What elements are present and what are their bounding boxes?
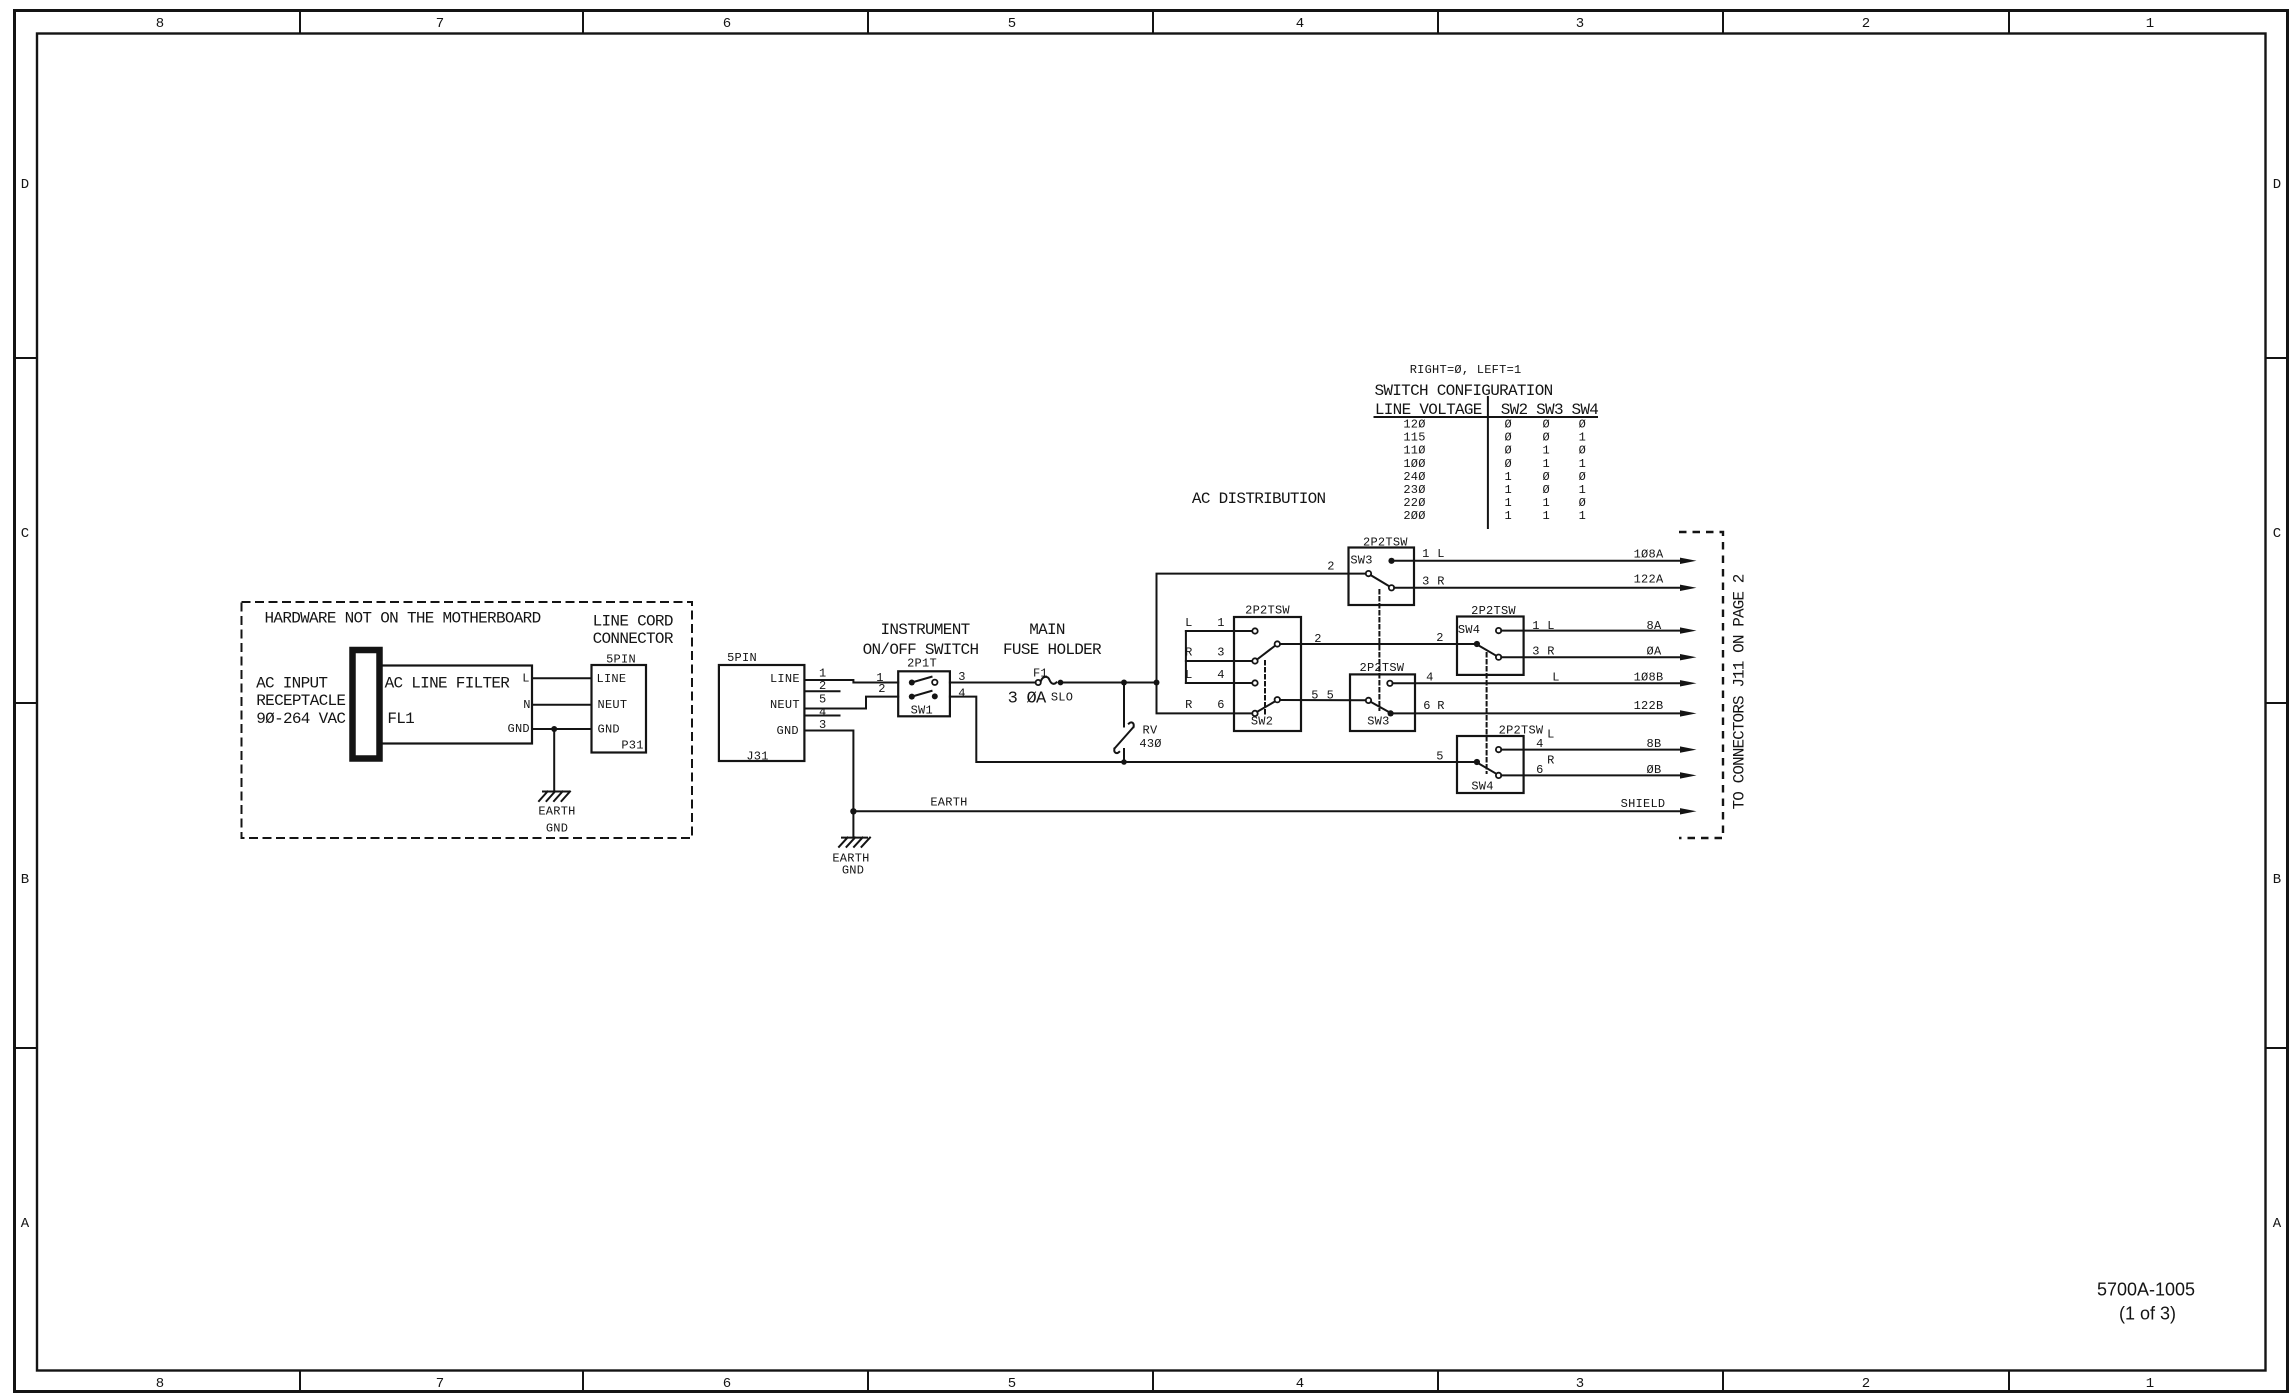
SW1 pole 1 throw contact bbox=[932, 680, 937, 685]
junction node bottom AC feed bbox=[1121, 759, 1127, 765]
svg-text:Ø: Ø bbox=[1542, 470, 1549, 484]
SW1 pole 2 arm bbox=[912, 691, 932, 697]
svg-text:23Ø: 23Ø bbox=[1403, 483, 1425, 497]
SW1 pole 1 arm bbox=[912, 677, 932, 683]
svg-text:9Ø-264 VAC: 9Ø-264 VAC bbox=[256, 710, 345, 728]
svg-text:INSTRUMENT: INSTRUMENT bbox=[880, 621, 969, 639]
svg-text:L: L bbox=[1437, 547, 1444, 561]
svg-text:1: 1 bbox=[1504, 483, 1511, 497]
svg-text:1: 1 bbox=[1579, 509, 1586, 523]
svg-text:Ø: Ø bbox=[1542, 483, 1549, 497]
table row 120 bbox=[1403, 418, 1586, 432]
svg-text:Ø: Ø bbox=[1504, 431, 1511, 445]
svg-text:1: 1 bbox=[1422, 547, 1429, 561]
svg-text:LINE CORD: LINE CORD bbox=[593, 612, 673, 630]
SW1 pole 2 contact bbox=[909, 694, 915, 700]
svg-text:5: 5 bbox=[1311, 689, 1318, 703]
svg-text:L: L bbox=[1547, 728, 1554, 742]
svg-text:D: D bbox=[21, 177, 29, 193]
SW1 pole 1 contact bbox=[909, 680, 915, 686]
SW4 top pin 3 contact bbox=[1496, 655, 1501, 660]
arrow 122B bbox=[1680, 710, 1697, 716]
svg-text:SW3: SW3 bbox=[1350, 553, 1372, 567]
SW3 middle pin 4 contact bbox=[1387, 681, 1392, 686]
SW4 top pole contact bbox=[1474, 641, 1480, 647]
svg-text:8A: 8A bbox=[1647, 619, 1662, 633]
svg-text:SWITCH CONFIGURATION: SWITCH CONFIGURATION bbox=[1374, 382, 1552, 400]
SW3 top pin 1 contact bbox=[1388, 558, 1394, 564]
svg-text:12Ø: 12Ø bbox=[1403, 418, 1425, 432]
SW3 top arm bbox=[1371, 575, 1390, 586]
border zone tick marks left bbox=[15, 358, 38, 1048]
EARTH wire to SHIELD bbox=[853, 810, 1680, 812]
SW4 top arm bbox=[1479, 646, 1497, 656]
wire SW1 pin4 down to bottom AC feed bbox=[950, 697, 1474, 762]
svg-text:1ØØ: 1ØØ bbox=[1403, 457, 1425, 471]
svg-text:D: D bbox=[2273, 177, 2281, 193]
svg-text:SHIELD: SHIELD bbox=[1621, 797, 1666, 811]
svg-text:F1: F1 bbox=[1033, 667, 1048, 681]
SW1 pole 2 throw contact bbox=[932, 693, 938, 699]
svg-text:R: R bbox=[1185, 645, 1192, 659]
svg-text:AC DISTRIBUTION: AC DISTRIBUTION bbox=[1192, 490, 1326, 508]
wire junction down to earth ground bbox=[553, 729, 555, 792]
svg-text:P31: P31 bbox=[621, 739, 643, 753]
svg-text:RIGHT=Ø, LEFT=1: RIGHT=Ø, LEFT=1 bbox=[1410, 363, 1522, 377]
svg-text:8B: 8B bbox=[1647, 737, 1662, 751]
AC input receptacle (thick rectangle) bbox=[353, 650, 380, 759]
SW3 middle pin 6 contact bbox=[1388, 710, 1394, 716]
J31 pin 4 stub bbox=[805, 715, 840, 717]
SW3 middle arm bbox=[1371, 702, 1389, 712]
svg-text:1: 1 bbox=[1579, 431, 1586, 445]
wire filter GND to P31 GND bbox=[532, 728, 592, 730]
svg-text:5: 5 bbox=[1436, 749, 1443, 763]
wire filter L to P31 LINE bbox=[532, 677, 592, 679]
wire net 8B bbox=[1501, 749, 1681, 751]
svg-text:Ø: Ø bbox=[1579, 444, 1586, 458]
SW3 middle pole contact bbox=[1366, 698, 1371, 703]
svg-text:3 ØA: 3 ØA bbox=[1008, 690, 1047, 709]
svg-text:A: A bbox=[21, 1216, 30, 1232]
wire SW2 pole1 (net 2) to SW4 top pole bbox=[1280, 643, 1477, 645]
arrow 108B bbox=[1680, 680, 1697, 686]
junction node fuse/RV bbox=[1121, 680, 1127, 686]
svg-text:GND: GND bbox=[546, 821, 568, 835]
svg-text:ØB: ØB bbox=[1647, 763, 1662, 777]
table header underline bbox=[1375, 416, 1598, 418]
svg-text:1: 1 bbox=[1579, 483, 1586, 497]
svg-text:GND: GND bbox=[842, 863, 864, 877]
svg-text:MAIN: MAIN bbox=[1029, 621, 1065, 639]
svg-text:8: 8 bbox=[156, 16, 164, 32]
svg-text:24Ø: 24Ø bbox=[1403, 470, 1425, 484]
SW2 pole 1 arm and output contact bbox=[1257, 646, 1275, 660]
svg-text:7: 7 bbox=[436, 1376, 444, 1392]
svg-text:(1 of 3): (1 of 3) bbox=[2119, 1304, 2176, 1324]
svg-text:2: 2 bbox=[878, 682, 885, 696]
svg-text:R: R bbox=[1547, 753, 1554, 767]
border zone numbers bottom bbox=[156, 1376, 2154, 1392]
svg-text:R: R bbox=[1437, 574, 1444, 588]
SW4 top pin 1 contact bbox=[1496, 628, 1501, 633]
svg-text:7: 7 bbox=[436, 16, 444, 32]
svg-text:1: 1 bbox=[1542, 444, 1549, 458]
dashed enclosure HARDWARE NOT ON THE MOTHERBOARD bbox=[242, 602, 693, 838]
line cord connector P31 box bbox=[592, 665, 647, 753]
table row 230 bbox=[1403, 483, 1586, 497]
svg-text:GND: GND bbox=[777, 724, 799, 738]
svg-text:AC LINE FILTER: AC LINE FILTER bbox=[385, 674, 511, 692]
SW4 bottom pin 6 contact bbox=[1496, 773, 1501, 778]
wire SW1 pin3 to fuse bbox=[950, 682, 1036, 684]
wire fuse to junctions bbox=[1063, 682, 1156, 684]
arrow 8A bbox=[1680, 627, 1697, 633]
svg-text:RECEPTACLE: RECEPTACLE bbox=[256, 692, 345, 710]
earth ground symbol (filter side) bbox=[539, 792, 570, 802]
junction node main AC bbox=[1154, 680, 1160, 686]
svg-text:2: 2 bbox=[1314, 632, 1321, 646]
svg-text:122B: 122B bbox=[1634, 699, 1664, 713]
arrow 8B bbox=[1680, 746, 1697, 752]
arrow SHIELD bbox=[1680, 808, 1697, 814]
wire net 108B bbox=[1393, 682, 1681, 684]
junction earth node bbox=[850, 808, 856, 814]
table row 200 bbox=[1403, 509, 1586, 523]
svg-text:ØA: ØA bbox=[1647, 645, 1662, 659]
svg-text:5: 5 bbox=[1327, 689, 1334, 703]
svg-text:6: 6 bbox=[723, 16, 731, 32]
svg-text:2: 2 bbox=[1862, 16, 1870, 32]
svg-text:A: A bbox=[2273, 1216, 2282, 1232]
svg-text:11Ø: 11Ø bbox=[1403, 444, 1425, 458]
svg-text:C: C bbox=[21, 526, 29, 542]
svg-text:Ø: Ø bbox=[1579, 418, 1586, 432]
svg-text:RV: RV bbox=[1143, 723, 1158, 737]
svg-text:SW1: SW1 bbox=[911, 703, 933, 717]
svg-text:GND: GND bbox=[598, 723, 620, 737]
arrow 108A bbox=[1680, 558, 1697, 564]
wire net 8A bbox=[1501, 630, 1681, 632]
svg-text:1: 1 bbox=[1542, 509, 1549, 523]
wire net 122B bbox=[1391, 712, 1681, 714]
svg-text:SW3: SW3 bbox=[1367, 715, 1389, 729]
wire net 0A bbox=[1501, 656, 1681, 658]
svg-text:122A: 122A bbox=[1634, 573, 1664, 587]
svg-text:2ØØ: 2ØØ bbox=[1403, 509, 1425, 523]
SW2 pole 2 arm and output contact bbox=[1257, 701, 1275, 712]
SW2 pin contacts bbox=[1252, 628, 1257, 633]
svg-text:TO CONNECTORS J11 ON PAGE 2: TO CONNECTORS J11 ON PAGE 2 bbox=[1731, 574, 1749, 809]
svg-text:1: 1 bbox=[1217, 616, 1224, 630]
svg-text:Ø: Ø bbox=[1579, 470, 1586, 484]
svg-text:SW4: SW4 bbox=[1458, 623, 1480, 637]
SW4 bottom pin 4 contact bbox=[1496, 747, 1501, 752]
svg-text:5: 5 bbox=[819, 692, 826, 706]
svg-text:HARDWARE NOT ON THE MOTHERBOAR: HARDWARE NOT ON THE MOTHERBOARD bbox=[265, 610, 541, 628]
svg-text:L: L bbox=[1552, 671, 1559, 685]
svg-text:8: 8 bbox=[156, 1376, 164, 1392]
svg-text:2: 2 bbox=[1862, 1376, 1870, 1392]
svg-text:3: 3 bbox=[1576, 1376, 1584, 1392]
varistor RV 430 branch wire bbox=[1123, 683, 1125, 763]
arrow 0A bbox=[1680, 654, 1697, 660]
border zone letters left bbox=[21, 177, 30, 1232]
SW4 bottom pole contact bbox=[1474, 759, 1480, 765]
SW2 left common bracket bbox=[1185, 631, 1187, 683]
AC line filter FL1 box bbox=[381, 666, 533, 744]
svg-text:1: 1 bbox=[1504, 496, 1511, 510]
svg-text:2: 2 bbox=[1436, 631, 1443, 645]
table column divider bbox=[1487, 397, 1489, 528]
svg-text:FUSE HOLDER: FUSE HOLDER bbox=[1003, 641, 1102, 659]
svg-text:1Ø8A: 1Ø8A bbox=[1634, 547, 1664, 561]
varistor RV 430 symbol bbox=[1114, 722, 1133, 753]
border zone letters right bbox=[2273, 177, 2282, 1232]
J31 pin 3 wire down to earth bbox=[805, 731, 854, 837]
svg-text:GND: GND bbox=[508, 722, 530, 736]
svg-text:1: 1 bbox=[1504, 509, 1511, 523]
svg-text:C: C bbox=[2273, 526, 2281, 542]
svg-text:3: 3 bbox=[1576, 16, 1584, 32]
SW4 bottom arm bbox=[1479, 764, 1497, 774]
svg-text:NEUT: NEUT bbox=[598, 698, 628, 712]
svg-text:EARTH: EARTH bbox=[930, 796, 967, 810]
svg-text:3: 3 bbox=[1422, 574, 1429, 588]
svg-text:R: R bbox=[1437, 699, 1444, 713]
arrow 122A bbox=[1680, 585, 1697, 591]
border zone numbers top bbox=[156, 16, 2154, 32]
svg-text:1: 1 bbox=[2146, 16, 2154, 32]
svg-text:4: 4 bbox=[1217, 668, 1224, 682]
dashed connector boundary J11 bbox=[1679, 532, 1723, 838]
svg-text:EARTH: EARTH bbox=[538, 804, 575, 818]
svg-text:LINE: LINE bbox=[770, 672, 800, 686]
svg-text:N: N bbox=[523, 698, 530, 712]
SW3 top throw contact (pin 3) bbox=[1389, 585, 1394, 590]
table row 110 bbox=[1403, 444, 1586, 458]
svg-text:4: 4 bbox=[1296, 16, 1304, 32]
svg-text:4: 4 bbox=[1296, 1376, 1304, 1392]
svg-text:2P2TSW: 2P2TSW bbox=[1245, 603, 1290, 617]
wire main junction up to SW3 top input bbox=[1157, 574, 1349, 683]
svg-text:1: 1 bbox=[2146, 1376, 2154, 1392]
svg-text:Ø: Ø bbox=[1579, 496, 1586, 510]
svg-text:Ø: Ø bbox=[1542, 431, 1549, 445]
svg-text:SW4: SW4 bbox=[1471, 779, 1493, 793]
svg-text:6: 6 bbox=[1217, 698, 1224, 712]
svg-text:1: 1 bbox=[1542, 457, 1549, 471]
svg-text:B: B bbox=[2273, 872, 2281, 888]
svg-text:1Ø8B: 1Ø8B bbox=[1634, 671, 1664, 685]
SW4 mechanical coupling dashed line bbox=[1486, 653, 1488, 773]
table row 240 bbox=[1403, 470, 1586, 484]
junction on GND wire bbox=[551, 726, 557, 732]
svg-text:Ø: Ø bbox=[1504, 457, 1511, 471]
svg-text:NEUT: NEUT bbox=[770, 698, 800, 712]
SW3 top input wire into pole bbox=[1349, 573, 1366, 575]
svg-text:Ø: Ø bbox=[1504, 444, 1511, 458]
connector J31 box bbox=[719, 665, 805, 761]
svg-text:22Ø: 22Ø bbox=[1403, 496, 1425, 510]
wire SW2 pole2 (net 5) to SW3 middle pole bbox=[1280, 699, 1366, 701]
svg-text:Ø: Ø bbox=[1542, 418, 1549, 432]
svg-text:L: L bbox=[1185, 616, 1192, 630]
arrow 0B bbox=[1680, 772, 1697, 778]
SW2 pin 4 wire bbox=[1186, 682, 1252, 684]
svg-text:3: 3 bbox=[1217, 645, 1224, 659]
border zone tick marks bottom bbox=[300, 1371, 2009, 1392]
svg-text:CONNECTOR: CONNECTOR bbox=[593, 630, 674, 648]
svg-text:5: 5 bbox=[1008, 1376, 1016, 1392]
border zone tick marks top bbox=[300, 11, 2009, 34]
SW2 mechanical coupling dashed line bbox=[1264, 661, 1266, 714]
table row 115 bbox=[1403, 431, 1586, 445]
switch SW1 box bbox=[898, 671, 950, 716]
J31 pin 1 wire to SW1 bbox=[805, 680, 899, 683]
svg-text:J31: J31 bbox=[746, 749, 768, 763]
SW2 pin 1 wire bbox=[1186, 630, 1252, 632]
svg-text:6: 6 bbox=[723, 1376, 731, 1392]
svg-text:2: 2 bbox=[1327, 560, 1334, 574]
earth ground symbol (J31 side) bbox=[839, 838, 870, 847]
wire filter N to P31 NEUT bbox=[532, 704, 592, 706]
svg-text:FL1: FL1 bbox=[387, 710, 414, 728]
svg-text:2: 2 bbox=[819, 679, 826, 693]
svg-text:1: 1 bbox=[1579, 457, 1586, 471]
table row 100 bbox=[1403, 457, 1586, 471]
svg-text:SLO: SLO bbox=[1051, 690, 1073, 704]
svg-text:4: 4 bbox=[958, 686, 965, 700]
svg-text:R: R bbox=[1185, 698, 1192, 712]
wire net 108A bbox=[1395, 560, 1681, 562]
svg-text:B: B bbox=[21, 872, 29, 888]
svg-text:6: 6 bbox=[1423, 699, 1430, 713]
wire main junction down to SW2 pin 6 bbox=[1157, 683, 1253, 714]
svg-text:3: 3 bbox=[819, 718, 826, 732]
table row 220 bbox=[1403, 496, 1586, 510]
svg-text:5PIN: 5PIN bbox=[606, 652, 636, 666]
J31 pin 5 wire to SW1 bbox=[805, 697, 899, 709]
svg-text:5: 5 bbox=[1008, 16, 1016, 32]
svg-text:L: L bbox=[1185, 668, 1192, 682]
SW3 top pole contact bbox=[1366, 571, 1371, 576]
svg-text:115: 115 bbox=[1403, 431, 1425, 445]
wire net 0B bbox=[1501, 774, 1681, 776]
SW3 mechanical coupling dashed line bbox=[1378, 590, 1380, 710]
svg-text:5PIN: 5PIN bbox=[727, 651, 757, 665]
svg-text:2P1T: 2P1T bbox=[907, 657, 937, 671]
svg-text:2P2TSW: 2P2TSW bbox=[1360, 661, 1405, 675]
svg-text:43Ø: 43Ø bbox=[1139, 737, 1161, 751]
svg-text:1: 1 bbox=[1542, 496, 1549, 510]
wire net 122A bbox=[1394, 587, 1681, 589]
SW2 pin 3 wire bbox=[1186, 660, 1252, 662]
svg-text:LINE: LINE bbox=[597, 672, 627, 686]
svg-text:L: L bbox=[522, 671, 529, 685]
svg-text:5700A-1005: 5700A-1005 bbox=[2097, 1279, 2195, 1299]
border zone tick marks right bbox=[2266, 358, 2288, 1048]
svg-text:1: 1 bbox=[1504, 470, 1511, 484]
svg-text:Ø: Ø bbox=[1504, 418, 1511, 432]
svg-text:AC INPUT: AC INPUT bbox=[256, 674, 327, 692]
J31 pin 2 stub bbox=[805, 690, 840, 692]
